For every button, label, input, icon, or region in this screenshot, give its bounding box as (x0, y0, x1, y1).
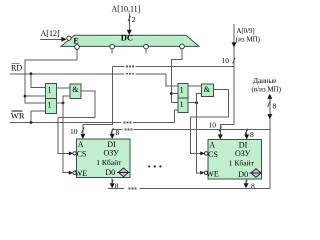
DC output circle 4 (180, 44, 185, 49)
AND gate U4 right (202, 84, 214, 97)
wire DO arrow RAM1 (111, 178, 113, 186)
svg-text:WE: WE (206, 169, 219, 178)
wire WR to OR4 (174, 110, 178, 123)
svg-text:ОЗУ: ОЗУ (104, 149, 120, 158)
wire OR2 out to AND in2 (63, 96, 70, 103)
svg-text:DI: DI (239, 140, 248, 149)
wire bottom data line (108, 187, 125, 189)
ellipsis between RAMs (148, 165, 150, 167)
wire AND out to CS left (58, 91, 95, 153)
wire DC out3 stub (145, 49, 147, 54)
svg-text:CS: CS (208, 150, 218, 159)
node OR4 out (195, 101, 198, 104)
svg-text:CS: CS (77, 149, 87, 158)
svg-text:2: 2 (132, 15, 136, 24)
bus tick 10 right (219, 126, 222, 132)
svg-text:Данные: Данные (253, 77, 276, 85)
OR gates U3 (1,1) right (178, 83, 188, 112)
bidirectional diamond right (251, 169, 261, 178)
svg-text:ОЗУ: ОЗУ (235, 149, 251, 158)
svg-text:A[12]: A[12] (41, 29, 60, 38)
svg-text:&: & (204, 85, 211, 94)
arrowhead into E (61, 37, 66, 42)
RAM block left (ОЗУ 1 Кбайт) (76, 139, 130, 178)
wire DI arrow RAM2 (246, 129, 248, 136)
svg-text:8: 8 (115, 181, 119, 190)
svg-text:DI: DI (107, 140, 116, 149)
wire branch to OR1 input (25, 95, 46, 97)
svg-text:8: 8 (116, 128, 120, 137)
svg-text:A[10,11]: A[10,11] (112, 5, 141, 14)
bus tick 10 left (82, 127, 85, 133)
svg-text:A[0/9]: A[0/9] (237, 28, 255, 35)
svg-text:RD: RD (11, 64, 22, 73)
DC output circle 3 (144, 44, 149, 49)
svg-text:8: 8 (273, 102, 277, 111)
svg-text:A: A (78, 140, 84, 149)
wire WE right (197, 103, 202, 173)
svg-text:&: & (72, 85, 79, 94)
arrowhead into DC (127, 30, 132, 35)
wire A[10,11] arrow into DC (128, 14, 130, 32)
wire OR4 out (188, 102, 196, 104)
wire A bus vertical (233, 24, 235, 125)
svg-text:8: 8 (251, 181, 255, 190)
node DC out1 branch (24, 95, 27, 98)
svg-text:10: 10 (70, 127, 78, 136)
AND gate U2 left (70, 84, 81, 98)
svg-text:WR: WR (11, 111, 25, 121)
svg-text:DC: DC (121, 33, 133, 43)
wire RD to OR1 (31, 74, 46, 88)
DC output circle 2 (110, 44, 115, 49)
WE inversion circle right (204, 171, 207, 174)
svg-text:1: 1 (48, 100, 52, 109)
svg-text:10: 10 (222, 56, 230, 65)
svg-text:(в/из МП): (в/из МП) (252, 85, 282, 93)
wire OR3 out to AND right (188, 85, 201, 87)
svg-text:1 Кбайт: 1 Кбайт (96, 158, 122, 167)
wire RD to OR3 (166, 74, 178, 86)
CS inversion circle left (73, 152, 76, 155)
wire branch to OR3 input (171, 93, 178, 95)
wire data bus vertical (269, 95, 271, 188)
svg-text:E: E (73, 37, 78, 46)
wire address 10-line (113, 66, 125, 68)
DC output circle 1 (75, 45, 80, 50)
wire DC out4 to right gates (171, 49, 182, 103)
svg-text:1: 1 (48, 85, 52, 94)
node WR branch (30, 121, 33, 124)
RAM block right (ОЗУ 1 Кбайт) (208, 140, 262, 180)
wire DC out1 to left gates (25, 49, 77, 103)
wire A branch to RAM2 A (220, 125, 234, 137)
svg-text:D0: D0 (105, 168, 115, 177)
node RD branch (30, 72, 33, 75)
wire DI arrow RAM1 (111, 129, 113, 136)
CS inversion circle right (204, 152, 207, 155)
node DC out4 branch (170, 92, 173, 95)
WE inversion circle left (73, 171, 76, 174)
wire OR2 out (57, 102, 63, 104)
bidirectional diamond left (119, 168, 129, 177)
wire WE left (63, 103, 70, 173)
wire A[12] arrow into E (40, 38, 63, 40)
wire AND out to CS right (190, 89, 228, 153)
bus tick 2 (128, 16, 131, 21)
wire DO arrow RAM2 (245, 179, 247, 185)
wire WR line (10, 121, 121, 123)
wire OR4 out to AND right in2 (197, 94, 202, 103)
OR gates U1 (1,1) left (46, 83, 57, 113)
wire DC out2 stub (111, 49, 113, 54)
node OR2 out (62, 102, 65, 105)
svg-text:1: 1 (180, 100, 184, 109)
wire OR1 out to AND (57, 87, 70, 89)
svg-text:A: A (209, 141, 215, 150)
svg-text:(из МП): (из МП) (236, 36, 261, 44)
decoder DC (61, 35, 199, 46)
svg-text:D0: D0 (238, 170, 248, 179)
svg-text:1: 1 (180, 85, 184, 94)
enable input E (67, 36, 71, 40)
svg-text:10: 10 (209, 120, 217, 129)
svg-text:8: 8 (250, 130, 254, 139)
svg-text:1 Кбайт: 1 Кбайт (229, 159, 255, 168)
wire RD line (10, 73, 125, 75)
svg-text:WE: WE (75, 169, 88, 178)
wire DI data line (112, 128, 122, 130)
wire WR to OR2 (31, 111, 46, 122)
wire address branch to RAM1 A (83, 67, 113, 137)
